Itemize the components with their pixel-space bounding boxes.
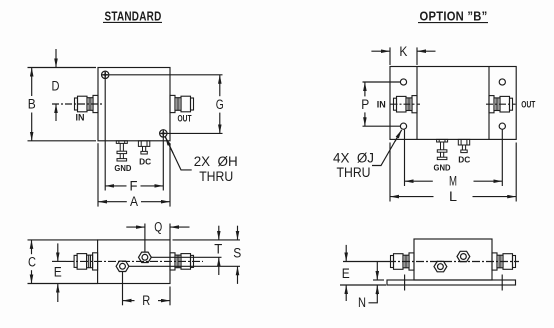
- svg-text:N: N: [358, 295, 366, 310]
- flange inner line right: [488, 67, 490, 140]
- hex screw upper optB: [457, 251, 470, 261]
- connector OUT optB: [489, 96, 513, 113]
- svg-text:DC: DC: [458, 156, 470, 165]
- svg-text:F: F: [130, 178, 138, 193]
- svg-text:Q: Q: [154, 220, 162, 235]
- svg-text:E: E: [54, 265, 62, 280]
- body outline: [98, 68, 170, 141]
- dimension F: [104, 79, 106, 191]
- pin DC optB: [458, 139, 469, 152]
- svg-text:B: B: [28, 97, 36, 112]
- centerline side: [52, 260, 66, 262]
- svg-text:G: G: [216, 97, 224, 112]
- dimension S: [237, 226, 239, 240]
- dimension C: [28, 239, 98, 241]
- plate hole mark left: [404, 275, 406, 291]
- svg-text:S: S: [233, 245, 241, 260]
- svg-text:E: E: [342, 266, 350, 281]
- body outline: [98, 240, 170, 284]
- dimension A: [97, 143, 99, 206]
- screw top-left: [102, 71, 109, 78]
- svg-text:IN: IN: [76, 112, 85, 122]
- svg-text:DC: DC: [139, 157, 151, 166]
- plate hole mark right: [501, 275, 503, 291]
- svg-text:2X ØH: 2X ØH: [194, 154, 238, 169]
- svg-text:A: A: [130, 194, 138, 209]
- svg-text:IN: IN: [377, 100, 386, 110]
- dimension E optB: [345, 245, 347, 262]
- body outline: [414, 239, 492, 280]
- pin DC: [138, 141, 149, 154]
- svg-text:L: L: [449, 189, 458, 204]
- svg-text:OPTION ”B”: OPTION ”B”: [420, 8, 488, 23]
- connector IN side: [74, 253, 98, 270]
- dimension N: [376, 262, 378, 281]
- svg-text:R: R: [142, 293, 150, 308]
- T S extension lines: [173, 239, 241, 241]
- dimension R: [122, 272, 124, 306]
- dimension K: [389, 47, 391, 65]
- pin GND optB: [437, 139, 448, 159]
- leader 2X ØH: [166, 137, 192, 170]
- svg-text:T: T: [214, 241, 222, 256]
- dimension L: [389, 143, 391, 202]
- hole top-right: [499, 79, 505, 85]
- dimension T: [218, 226, 220, 240]
- flanged body outline: [390, 67, 516, 140]
- dimension M: [404, 130, 406, 186]
- dimension Q: [144, 224, 146, 252]
- centerline IN optB: [391, 103, 421, 105]
- centerline OUT optB: [486, 103, 516, 105]
- connector IN: [75, 95, 99, 112]
- svg-text:4X ØJ: 4X ØJ: [333, 151, 374, 166]
- dimension D: [55, 49, 57, 68]
- connector left optB side: [391, 253, 415, 270]
- svg-text:GND: GND: [434, 163, 451, 172]
- svg-text:M: M: [449, 174, 457, 189]
- hole bottom-right: [499, 123, 505, 129]
- svg-text:OUT: OUT: [521, 100, 535, 110]
- leader 4X ØJ: [372, 136, 398, 166]
- dimension P: [363, 81, 401, 83]
- svg-text:D: D: [52, 79, 60, 94]
- svg-text:STANDARD: STANDARD: [105, 8, 162, 23]
- connector OUT side: [170, 253, 194, 270]
- screw bottom-right: [160, 130, 167, 137]
- dimension E: [57, 243, 59, 261]
- svg-text:THRU: THRU: [337, 165, 371, 180]
- svg-text:THRU: THRU: [199, 169, 233, 184]
- svg-text:OUT: OUT: [178, 113, 192, 123]
- hole bottom-left: [400, 123, 406, 129]
- pin GND: [116, 141, 127, 161]
- hex screw lower: [116, 261, 129, 271]
- hex screw lower optB: [434, 261, 447, 271]
- centerline optB side: [343, 261, 388, 263]
- svg-text:P: P: [361, 97, 369, 112]
- svg-text:C: C: [28, 255, 36, 270]
- svg-text:K: K: [399, 44, 407, 59]
- connector IN optB: [394, 96, 418, 113]
- dimension G: [109, 74, 222, 76]
- dimension B: [28, 67, 97, 69]
- flange inner line left: [416, 67, 418, 140]
- connector right optB side: [492, 253, 516, 270]
- hole top-left: [400, 79, 406, 85]
- mounting plate: [387, 280, 516, 285]
- centerline IN: [52, 103, 103, 105]
- svg-text:GND: GND: [114, 164, 131, 173]
- connector OUT: [170, 95, 194, 112]
- hex screw upper: [139, 252, 152, 262]
